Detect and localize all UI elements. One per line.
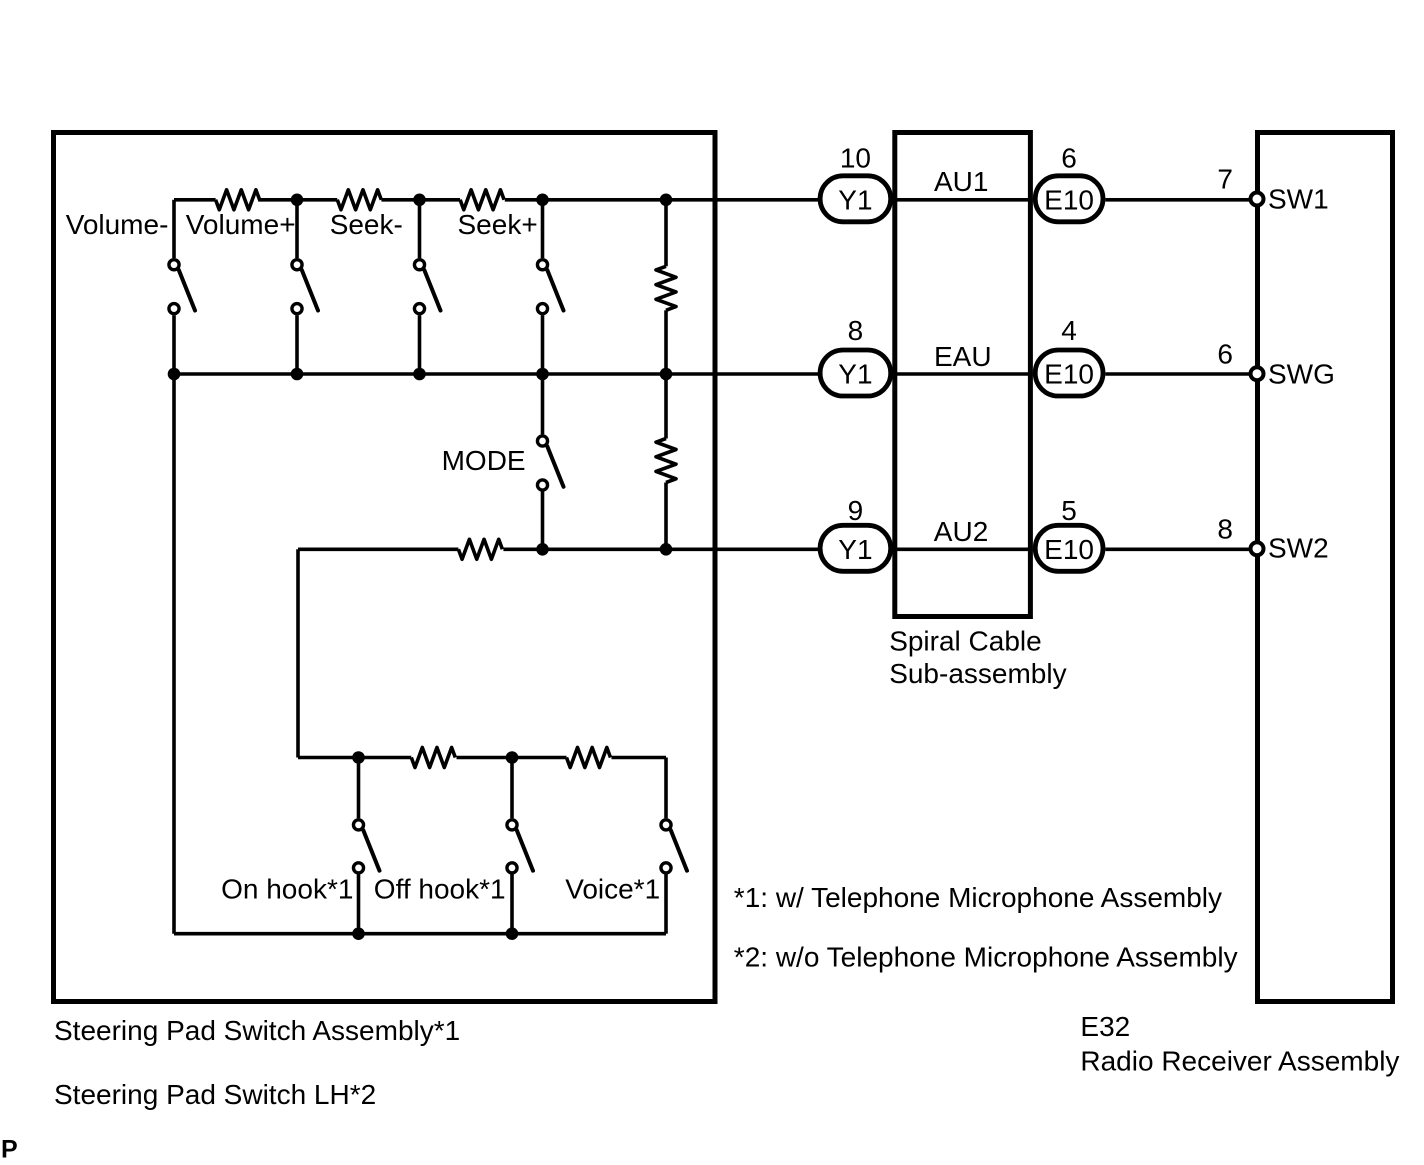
svg-text:P: P [1, 1136, 18, 1160]
switch Voice blade [671, 830, 687, 871]
svg-text:Steering Pad Switch LH*2: Steering Pad Switch LH*2 [54, 1079, 376, 1110]
svg-text:8: 8 [848, 315, 864, 346]
svg-text:4: 4 [1061, 315, 1077, 346]
Steering Pad Switch Assembly box [54, 133, 716, 1002]
wire left long vertical [172, 374, 176, 934]
switch Volume+ moving contact [292, 304, 302, 314]
svg-text:*1: w/ Telephone Microphone As: *1: w/ Telephone Microphone Assembly [734, 882, 1222, 913]
switch Off hook fixed contact [507, 820, 517, 830]
connector E10 row1 [1035, 176, 1103, 222]
wire row1 SW1 net: R2 to R3 [381, 198, 460, 202]
svg-text:6: 6 [1217, 338, 1233, 369]
switch Volume- moving contact [169, 304, 179, 314]
resistor R2 top [337, 190, 381, 210]
svg-text:5: 5 [1061, 495, 1077, 526]
svg-text:Spiral Cable: Spiral Cable [889, 625, 1042, 656]
svg-text:E10: E10 [1044, 534, 1094, 565]
svg-text:EAU: EAU [934, 341, 992, 372]
switch On hook [353, 758, 379, 934]
switch Seek+ [537, 200, 563, 374]
wire switch On hook top stub [357, 758, 361, 819]
wire row3 SW2 net: corner to R4 [298, 547, 458, 551]
switch On hook fixed contact [353, 820, 363, 830]
wire switch Volume+ top stub [295, 200, 299, 258]
wire E10 pin5 to terminal 8 [1105, 547, 1250, 551]
wire column 666: Rv2 to row3 [664, 483, 668, 550]
switch Off hook blade [517, 830, 533, 871]
switch Volume+ fixed contact [292, 260, 302, 270]
junction row2 Volume+ [291, 368, 304, 381]
wire E10 pin6 to terminal 7 [1105, 198, 1250, 202]
wire switch Seek+ top stub [541, 200, 545, 258]
switch Volume- [169, 200, 195, 374]
svg-text:9: 9 [848, 495, 864, 526]
switch Seek- moving contact [414, 304, 424, 314]
wire row1 SW1 net: corner to R1 [174, 198, 216, 202]
junction row3 MODE [536, 543, 549, 556]
svg-text:E32: E32 [1080, 1011, 1130, 1042]
junction row2 MODE [536, 368, 549, 381]
connector Y1 row2 [820, 350, 891, 396]
wire switch Seek- top stub [418, 200, 422, 258]
svg-text:E10: E10 [1044, 359, 1094, 390]
switch MODE [537, 374, 563, 549]
wire corner vertical x298 [296, 549, 300, 757]
switch Volume+ [292, 200, 318, 374]
switch Seek- blade [424, 270, 440, 311]
wire switch Volume+ bottom stub [295, 315, 299, 374]
switch Volume+ blade [302, 270, 318, 311]
svg-text:AU2: AU2 [934, 516, 988, 547]
switch Seek+ blade [547, 270, 563, 311]
wire column 666: row2 to Rv2 [664, 374, 668, 439]
E32 Radio Receiver Assembly box [1258, 133, 1393, 1002]
junction row2 Seek- [413, 368, 426, 381]
wire switch Off hook bottom stub [510, 875, 514, 934]
switch MODE moving contact [537, 480, 547, 490]
svg-text:AU1: AU1 [934, 166, 988, 197]
terminal 7 SW1 [1251, 193, 1264, 206]
wire row1 SW1 net: R3 to connector Y1 [505, 198, 820, 202]
switch Seek- [414, 200, 440, 374]
switch Seek+ fixed contact [537, 260, 547, 270]
junction row2 Volume- [168, 368, 181, 381]
svg-text:On hook*1: On hook*1 [221, 874, 353, 905]
wire switch Seek- bottom stub [418, 315, 422, 374]
svg-text:Radio Receiver Assembly: Radio Receiver Assembly [1080, 1045, 1399, 1076]
switch MODE blade [547, 446, 563, 487]
svg-text:7: 7 [1217, 163, 1233, 194]
svg-text:SW2: SW2 [1268, 533, 1329, 564]
wire switch MODE top stub [541, 374, 545, 434]
connector E10 row2 [1035, 350, 1103, 396]
wire row1 SW1 net: R1 to R2 [258, 198, 337, 202]
svg-text:MODE: MODE [442, 445, 526, 476]
svg-text:Sub-assembly: Sub-assembly [889, 658, 1066, 689]
wire hook row: R5 to R6 [457, 756, 567, 760]
switch MODE fixed contact [537, 436, 547, 446]
switch On hook moving contact [353, 863, 363, 873]
switch Volume- fixed contact [169, 260, 179, 270]
wire EAU inside spiral cable [891, 372, 1033, 376]
svg-text:6: 6 [1061, 143, 1077, 174]
wire E10 pin4 to terminal 6 [1105, 372, 1250, 376]
resistor R4 row3 [458, 539, 502, 559]
svg-text:Off hook*1: Off hook*1 [374, 874, 506, 905]
svg-text:Seek+: Seek+ [458, 209, 538, 240]
switch Volume- blade [179, 270, 195, 311]
terminal 8 SW2 [1251, 542, 1264, 555]
junction hook row Off hook [506, 751, 519, 764]
wire switch Seek+ bottom stub [541, 315, 545, 374]
wire switch Volume- bottom stub [172, 315, 176, 374]
wire hook row: corner to R5 [298, 756, 411, 760]
wire hook row: R6 to Voice corner [612, 756, 667, 760]
svg-text:Volume+: Volume+ [186, 209, 296, 240]
wire switch On hook bottom stub [357, 875, 361, 934]
wire switch Voice bottom stub [664, 875, 668, 934]
svg-text:E10: E10 [1044, 184, 1094, 215]
switch Voice moving contact [661, 863, 671, 873]
svg-text:SWG: SWG [1268, 359, 1335, 390]
switch Off hook moving contact [507, 863, 517, 873]
resistor R1 top [216, 190, 260, 210]
resistor R5 [411, 748, 455, 768]
svg-text:SW1: SW1 [1268, 184, 1329, 215]
svg-text:Seek-: Seek- [330, 209, 403, 240]
junction bottom Off hook [506, 927, 519, 940]
junction row1 Seek- [413, 194, 426, 207]
junction row2 Rv1/Rv2 [660, 368, 673, 381]
wire row2 SWG net to connector Y1 [174, 372, 820, 376]
svg-text:Y1: Y1 [838, 359, 872, 390]
wire AU1 inside spiral cable [891, 198, 1033, 202]
svg-text:8: 8 [1217, 513, 1233, 544]
svg-text:Steering Pad Switch Assembly*1: Steering Pad Switch Assembly*1 [54, 1015, 460, 1046]
svg-text:Y1: Y1 [838, 184, 872, 215]
Spiral Cable Sub-assembly box [895, 133, 1031, 617]
switch Seek+ moving contact [537, 304, 547, 314]
connector Y1 row3 [820, 525, 891, 571]
wire column 666: Rv1 to row2 [664, 310, 668, 374]
connector Y1 row1 [820, 176, 891, 222]
junction row1 Rv1 [660, 194, 673, 207]
wire switch MODE bottom stub [541, 491, 545, 549]
wire AU2 inside spiral cable [891, 547, 1033, 551]
svg-text:10: 10 [840, 143, 871, 174]
wire row3 SW2 net: R4 to connector Y1 [503, 547, 819, 551]
terminal 6 SWG [1251, 367, 1264, 380]
resistor Rv2 vertical [656, 439, 676, 483]
switch Voice [661, 758, 687, 934]
resistor Rv1 vertical [656, 266, 676, 310]
switch Voice fixed contact [661, 820, 671, 830]
junction hook row On hook [352, 751, 365, 764]
svg-text:Voice*1: Voice*1 [565, 874, 660, 905]
switch Off hook [507, 758, 533, 934]
wire bottom return bus [174, 932, 666, 936]
junction bottom On hook [352, 927, 365, 940]
wire column 666: row1 to Rv1 [664, 200, 668, 266]
resistor R6 [567, 748, 611, 768]
resistor R3 top [460, 190, 504, 210]
wire switch Off hook top stub [510, 758, 514, 819]
junction dots [168, 194, 673, 941]
svg-text:*2: w/o Telephone Microphone A: *2: w/o Telephone Microphone Assembly [734, 941, 1238, 972]
svg-text:Volume-: Volume- [66, 209, 169, 240]
svg-text:Y1: Y1 [838, 534, 872, 565]
switch On hook blade [363, 830, 379, 871]
connector E10 row3 [1035, 525, 1103, 571]
switch Seek- fixed contact [414, 260, 424, 270]
junction row1 Volume+ [291, 194, 304, 207]
junction row3 Rv2 [660, 543, 673, 556]
wire switch Voice top stub [664, 758, 668, 819]
wire switch Volume- top stub [172, 200, 176, 258]
junction row1 Seek+ [536, 194, 549, 207]
